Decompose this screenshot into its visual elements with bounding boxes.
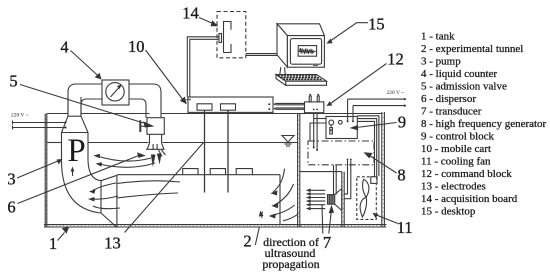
- svg-text:1 - tank: 1 - tank: [421, 31, 455, 43]
- svg-text:220 V ~: 220 V ~: [387, 90, 405, 96]
- dispersor 6: [146, 143, 165, 156]
- transducer 7: [328, 189, 342, 211]
- flow streamlines from dispersor: [97, 156, 155, 167]
- callout 14: [199, 18, 213, 24]
- flow streamlines right of tunnel: [262, 169, 299, 221]
- svg-text:9 - control block: 9 - control block: [421, 131, 495, 143]
- inner wall a: [298, 114, 300, 227]
- dispersor spray arrows: [151, 154, 162, 168]
- 220V supply left: [13, 121, 67, 130]
- callout 3: [17, 161, 59, 178]
- ultrasound wave arrows: [309, 190, 325, 208]
- svg-text:2: 2: [243, 232, 251, 251]
- arch pipe outer: [68, 84, 161, 118]
- svg-text:12: 12: [387, 49, 404, 68]
- callout number labels: [7, 4, 412, 254]
- callout 9: [356, 123, 397, 128]
- wires HF generator to transducer: [334, 160, 351, 198]
- fan connector: [371, 177, 377, 184]
- tunnel top supports: [183, 169, 253, 175]
- direction caption: [262, 235, 319, 271]
- callout 5: [20, 85, 144, 124]
- callout 1: [58, 233, 65, 241]
- callout 7: [321, 205, 324, 234]
- svg-text:6: 6: [7, 198, 15, 217]
- legend list: [421, 31, 547, 218]
- svg-text:1: 1: [49, 234, 57, 253]
- svg-text:7: 7: [323, 233, 331, 252]
- svg-text:220 V ~: 220 V ~: [11, 113, 29, 119]
- tank 1 : outer walls: [44, 112, 386, 227]
- control block 9: [326, 117, 357, 139]
- svg-text:4 - liquid counter: 4 - liquid counter: [421, 68, 497, 80]
- acquisition board 14: [217, 12, 246, 58]
- svg-text:10: 10: [128, 37, 145, 56]
- electrodes 13: [205, 110, 229, 192]
- elbow pipe: [62, 161, 102, 213]
- svg-text:13: 13: [104, 234, 121, 253]
- callout 11: [377, 215, 398, 223]
- flow streamlines left of tunnel: [91, 181, 180, 209]
- callout 6: [18, 156, 139, 204]
- experimental tunnel 2: [117, 175, 280, 225]
- callout 8: [370, 156, 397, 174]
- arch pipe inner: [81, 99, 146, 118]
- high frequency generator 8: [308, 141, 374, 165]
- liquid counter 4: [102, 80, 129, 105]
- svg-text:5: 5: [9, 72, 17, 91]
- svg-text:12 - command block: 12 - command block: [421, 168, 512, 180]
- cable acquisition board to desktop: [246, 54, 277, 56]
- callout 4: [71, 51, 98, 76]
- svg-text:10 - mobile cart: 10 - mobile cart: [421, 143, 491, 155]
- cables cart to command block: [276, 103, 305, 109]
- callout 2: [255, 227, 259, 246]
- tank top rim: [47, 113, 382, 115]
- svg-text:propagation: propagation: [262, 257, 319, 271]
- pump 3 : neck and body: [62, 97, 89, 161]
- water level line: [47, 142, 298, 144]
- svg-text:15: 15: [368, 15, 385, 34]
- transducer chamber top: [300, 171, 342, 173]
- pump inlet up-arrow: [71, 167, 75, 177]
- svg-text:11 - cooling fan: 11 - cooling fan: [421, 156, 491, 168]
- svg-text:5 - admission valve: 5 - admission valve: [421, 81, 507, 93]
- inner wall b: [342, 172, 344, 227]
- callout 15: [331, 23, 368, 41]
- pipe below valve: [150, 134, 162, 143]
- callout 10: [146, 50, 184, 101]
- svg-text:8: 8: [397, 166, 405, 185]
- svg-text:13 - electrodes: 13 - electrodes: [421, 181, 486, 193]
- svg-text:3: 3: [7, 170, 15, 189]
- cable cart to acquisition board: [187, 37, 219, 97]
- svg-text:9: 9: [398, 113, 406, 132]
- callout 13: [125, 143, 204, 233]
- water level symbol: [282, 136, 294, 147]
- mobile cart 10: [188, 97, 273, 112]
- desktop keyboard: [276, 75, 327, 86]
- svg-text:3 - pump: 3 - pump: [421, 56, 461, 68]
- svg-text:4: 4: [60, 38, 68, 57]
- svg-text:8 - high frequency generator: 8 - high frequency generator: [421, 118, 547, 130]
- command block 12: [305, 96, 324, 113]
- wires control block to cooling fan: [357, 116, 379, 180]
- fan blades: [360, 179, 369, 217]
- wires command block to HF generator: [314, 113, 317, 150]
- tank 1 : wall speckle texture: [45, 113, 386, 226]
- cooling fan 11: [357, 177, 377, 220]
- svg-text:2 - experimental tunnel: 2 - experimental tunnel: [421, 43, 523, 55]
- admission valve 5: [140, 118, 164, 135]
- svg-text:14: 14: [182, 4, 199, 23]
- 220V supply right wires: [348, 99, 405, 116]
- svg-text:P: P: [67, 133, 85, 169]
- svg-text:6 - dispersor: 6 - dispersor: [421, 93, 476, 105]
- svg-text:14 - acquisition board: 14 - acquisition board: [421, 193, 518, 205]
- inlet funnel: [101, 175, 117, 227]
- desktop 15 : monitor: [277, 24, 324, 75]
- svg-text:15 - desktop: 15 - desktop: [421, 206, 476, 218]
- callout 12: [331, 64, 387, 104]
- svg-text:11: 11: [397, 218, 413, 237]
- svg-text:7 - transducer: 7 - transducer: [421, 106, 482, 118]
